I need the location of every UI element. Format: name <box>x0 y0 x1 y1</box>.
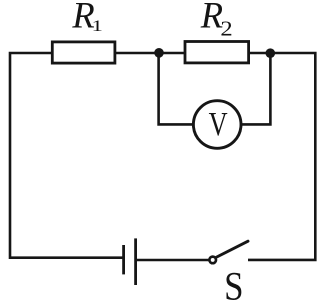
svg-text:2: 2 <box>220 17 232 41</box>
svg-text:S: S <box>224 264 243 300</box>
svg-text:V: V <box>209 106 228 143</box>
svg-text:1: 1 <box>92 16 103 35</box>
